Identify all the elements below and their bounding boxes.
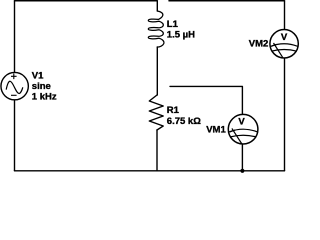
VM1 scale arc upper [229,129,257,132]
VM2 scale arc lower [271,50,296,52]
VM1 needle [232,128,242,144]
svg-text:V1: V1 [32,70,44,81]
wire inductor top lead [156,1,158,11]
voltage source V1 [1,72,28,99]
wire bottom horizontal [15,170,285,172]
VM2 tick [271,44,276,46]
wire inductor-resistor lead [156,47,158,95]
V1 plus sign [11,74,17,80]
wire top-left horizontal [15,0,158,2]
svg-text:6.75 kΩ: 6.75 kΩ [167,116,201,127]
VM1 scale arc lower [230,135,257,137]
VM1 tick [230,130,236,132]
VM2 needle [274,43,284,58]
svg-text:sine: sine [32,81,51,92]
svg-text:L1: L1 [167,19,179,30]
inductor L1 coil [148,11,164,47]
voltmeter VM1 [228,114,258,144]
wire VM2 bottom lead [284,59,286,171]
svg-text:V: V [281,32,288,43]
wire resistor bottom lead [156,130,158,171]
VM2 scale arc upper [271,44,298,47]
wire middle horizontal to VM1 [170,86,242,113]
V1 minus sign [11,94,17,96]
resistor R1 zigzag [149,95,163,130]
svg-text:VM1: VM1 [206,124,226,135]
wire VM2 top lead [284,1,286,29]
svg-text:VM2: VM2 [249,38,269,49]
wire left vertical lower [14,101,16,171]
svg-text:V: V [238,116,245,127]
svg-text:1.5 µH: 1.5 µH [167,29,195,40]
V1 sine symbol [6,81,23,93]
wire VM1 bottom lead [241,145,243,171]
svg-text:R1: R1 [167,105,180,116]
wire top-right horizontal [169,0,285,2]
svg-text:1 kHz: 1 kHz [32,91,57,102]
wire left vertical upper [14,1,16,72]
junction dot VM1/bottom wire [240,169,244,173]
voltmeter VM2 [270,30,298,58]
